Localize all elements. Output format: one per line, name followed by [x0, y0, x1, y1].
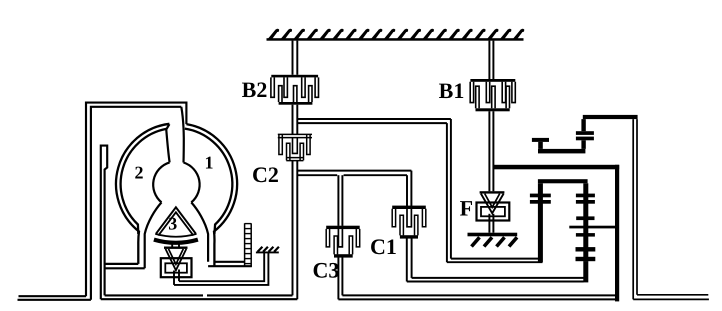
- svg-text:C1: C1: [370, 234, 397, 259]
- svg-text:3: 3: [168, 214, 177, 234]
- svg-text:F: F: [460, 196, 473, 221]
- svg-text:B1: B1: [439, 78, 465, 103]
- svg-text:2: 2: [135, 163, 144, 183]
- svg-text:C2: C2: [252, 162, 279, 187]
- svg-text:1: 1: [205, 153, 214, 173]
- svg-text:C3: C3: [313, 258, 340, 283]
- svg-text:B2: B2: [242, 77, 268, 102]
